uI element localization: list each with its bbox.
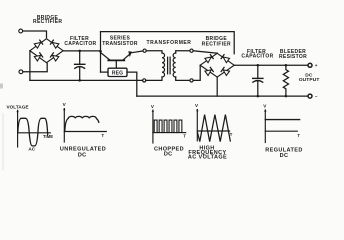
- svg-text:DC: DC: [280, 153, 289, 159]
- wire: BR1 left vertex to bottom rail: [29, 51, 31, 81]
- node: R1 bottom junction: [285, 95, 288, 98]
- waveform W2 T axis: [64, 131, 106, 133]
- wire: top feedback line: [101, 32, 235, 54]
- svg-text:RECTIFIER: RECTIFIER: [202, 41, 231, 47]
- svg-text:+: +: [315, 63, 318, 68]
- AC input terminal bottom: [19, 70, 23, 74]
- AC input terminal top: [19, 29, 23, 33]
- scan streak artifact: [2, 113, 5, 170]
- diode D4 (BR1 bottom-right): [50, 53, 59, 61]
- bridge rectifier BR1 diamond: [30, 39, 63, 63]
- svg-text:TRANSFORMER: TRANSFORMER: [147, 40, 192, 46]
- diode D8 (BR2 bottom-right): [221, 67, 230, 75]
- svg-text:OUTPUT: OUTPUT: [299, 77, 320, 83]
- wire: primary bottom lead: [146, 77, 162, 80]
- transformer T1 primary terminal top: [143, 49, 146, 52]
- diode D5 (BR2 top-left): [205, 54, 214, 62]
- svg-text:RESISTOR: RESISTOR: [279, 54, 307, 60]
- svg-text:CAPACITOR: CAPACITOR: [241, 54, 273, 60]
- wire: secondary top to BR2 top vertex: [193, 51, 217, 53]
- node: C1 bottom junction: [78, 79, 81, 82]
- waveform W3 chopped pulses: [154, 120, 182, 133]
- transformer T1 core: [167, 57, 169, 74]
- wire: BR1 right vertex to collector node: [63, 50, 100, 52]
- wire: top input to BR1 top vertex: [23, 31, 47, 38]
- transformer T1 secondary terminal bottom: [190, 79, 193, 82]
- svg-text:TRANSISTOR: TRANSISTOR: [102, 41, 138, 47]
- waveform W4 V axis: [196, 110, 198, 141]
- waveform W4 T axis: [197, 130, 229, 132]
- waveform W1 T axis: [18, 132, 51, 134]
- waveform W1 AC sine: [18, 118, 48, 146]
- diode D3 (BR1 bottom-left): [34, 53, 43, 61]
- bleeder resistor R1: [283, 65, 288, 96]
- transformer T1 primary winding: [162, 53, 165, 77]
- waveform W2 ripple curve: [65, 116, 99, 130]
- filter capacitor C1: [79, 51, 81, 64]
- regulator U1 box: [108, 68, 127, 76]
- wire: secondary top lead: [176, 51, 190, 53]
- svg-text:CAPACITOR: CAPACITOR: [64, 41, 96, 47]
- svg-text:AC: AC: [28, 146, 35, 151]
- svg-text:–: –: [315, 94, 318, 99]
- waveform W2 V axis: [63, 109, 65, 142]
- node: R1 top junction: [285, 64, 288, 67]
- svg-text:T: T: [183, 134, 186, 139]
- svg-text:DC: DC: [164, 152, 173, 158]
- wire: collector node vertical: [100, 32, 102, 72]
- DC output terminal -: [308, 94, 312, 98]
- wire: negative output rail: [137, 95, 308, 97]
- svg-text:VOLTAGE: VOLTAGE: [6, 104, 28, 109]
- diode D1 (BR1 top-left): [34, 40, 43, 48]
- wire: secondary bottom to BR2 left vertex: [193, 65, 200, 80]
- wire: bottom input to BR1 bottom vertex: [23, 63, 47, 71]
- waveform W3 V axis: [152, 110, 154, 143]
- transformer T1 primary terminal bottom: [143, 79, 146, 82]
- transistor Q1: [108, 59, 124, 61]
- svg-text:REG: REG: [112, 71, 123, 77]
- wire: Q1 emitter to T1 primary top: [132, 51, 143, 53]
- wire: bottom primary rail: [30, 79, 143, 81]
- diode D6 (BR2 top-right): [221, 54, 230, 62]
- wire: REG right to output return rail: [127, 72, 137, 96]
- wire: positive output rail: [234, 64, 308, 66]
- waveform W1 V axis: [17, 110, 19, 147]
- diode D7 (BR2 bottom-left): [205, 67, 214, 75]
- node: C2 bottom junction: [257, 95, 260, 98]
- diode D2 (BR1 top-right): [50, 40, 59, 48]
- waveform W5 V axis: [264, 110, 266, 143]
- node: collector junction: [99, 50, 102, 53]
- transformer T1 secondary terminal top: [190, 49, 193, 52]
- transformer T1 secondary winding: [173, 53, 176, 77]
- waveform W4 triangle wave: [198, 115, 231, 142]
- wire: BR2 bottom vertex to return rail: [216, 77, 218, 96]
- svg-text:T: T: [297, 133, 300, 138]
- waveform W5 regulated DC level: [265, 119, 299, 121]
- svg-text:AC VOLTAGE: AC VOLTAGE: [188, 154, 227, 160]
- node: C1 top junction: [78, 50, 81, 53]
- node: C2 top junction: [257, 64, 260, 67]
- waveform W3 T axis: [153, 132, 186, 134]
- filter capacitor C2: [257, 65, 259, 77]
- bridge rectifier BR2 diamond: [200, 53, 234, 77]
- svg-text:T: T: [230, 132, 233, 137]
- svg-text:DC: DC: [78, 152, 87, 158]
- DC output terminal +: [308, 63, 312, 67]
- svg-text:T: T: [102, 133, 105, 138]
- waveform W5 T axis: [265, 130, 297, 132]
- wire: primary top lead: [146, 51, 162, 53]
- wire: REG left to collector node: [101, 71, 109, 73]
- wire: secondary bottom lead: [176, 77, 190, 80]
- svg-text:RECTIFIER: RECTIFIER: [33, 19, 62, 25]
